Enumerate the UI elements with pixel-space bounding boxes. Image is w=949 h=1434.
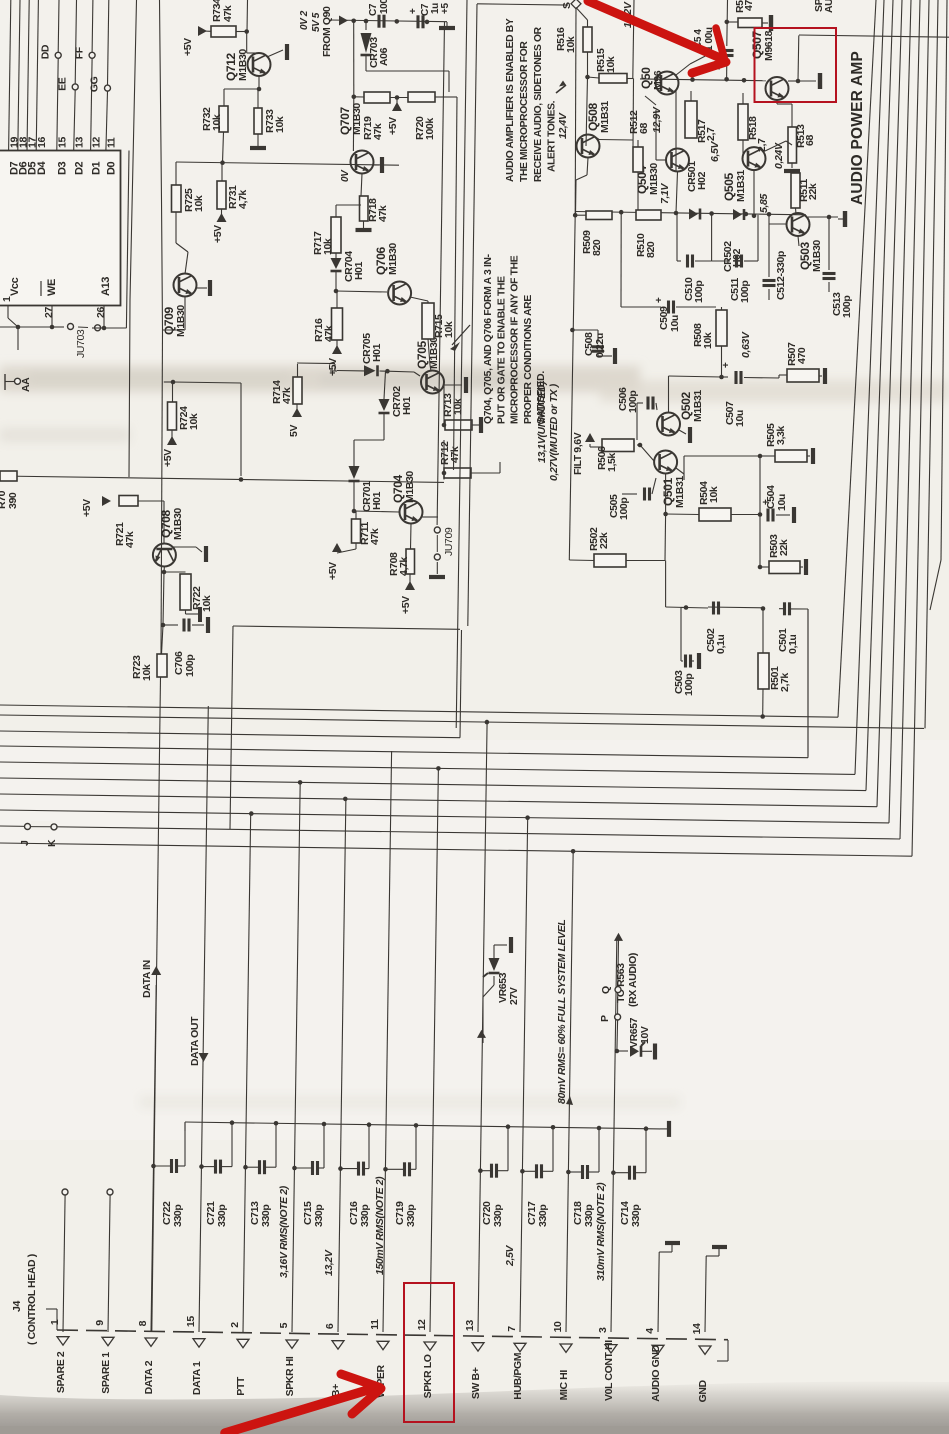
svg-text:330p: 330p (630, 1205, 642, 1227)
svg-text:+: + (721, 362, 732, 368)
wire Q505 collector (752, 170, 757, 218)
wire SPARE 1 line (107, 1189, 113, 1332)
svg-text:V0L CONT HI: V0L CONT HI (603, 1340, 615, 1401)
wire Q501 base (637, 443, 654, 461)
wire GND line (705, 1256, 706, 1332)
connector pin 10 MIC HI (552, 1321, 572, 1400)
label AUDIO POWER AMP (849, 51, 866, 205)
wire Q503 collector (798, 236, 799, 246)
wire bus V2 mid (161, 330, 163, 654)
wire R712 right (471, 462, 500, 473)
svg-text:13,2V: 13,2V (323, 1249, 335, 1276)
resistor R720 (408, 92, 449, 140)
label D4 pin 16 (36, 137, 48, 175)
wire R512 bottom (636, 172, 641, 215)
label 310mV RMS (595, 1182, 607, 1281)
svg-text:47k: 47k (222, 5, 234, 22)
wire CR703 to R720 (366, 71, 449, 92)
resistor R719 (362, 92, 390, 140)
transistor Q709 (162, 274, 196, 338)
wire R715 to Q705 (428, 339, 431, 371)
wire Q508 collector (576, 158, 589, 216)
connector pin 9 SPARE 1 (94, 1320, 114, 1394)
resistor R511 (791, 173, 819, 208)
ground (R733) (250, 134, 266, 148)
resistor R516 (555, 27, 592, 53)
note arrow (450, 325, 470, 351)
ground (C508) (598, 348, 615, 364)
wire R515 right (627, 0, 634, 147)
label A13 pin 26 (95, 277, 112, 318)
svg-text:100p: 100p (683, 674, 695, 696)
red box SPKR LO (404, 1283, 454, 1422)
svg-text:Q505: Q505 (722, 173, 736, 201)
svg-text:12: 12 (416, 1319, 428, 1330)
label 0,63V italic (740, 331, 752, 358)
ground (VR657) (653, 1044, 657, 1060)
red box Q507 (755, 28, 837, 102)
svg-text:FF: FF (73, 46, 85, 59)
wire Q708 collector (162, 567, 186, 575)
svg-text:D3: D3 (57, 161, 69, 175)
svg-text:80mV RMS= 60% FULL SYSTEM LEVE: 80mV RMS= 60% FULL SYSTEM LEVEL (556, 920, 568, 1104)
resistor R718 (360, 196, 390, 222)
svg-text:10k: 10k (605, 56, 617, 73)
transistor Q508 (577, 101, 612, 158)
wire CR705 row (337, 369, 420, 376)
label +5V (R724) (162, 430, 177, 467)
svg-text:47k: 47k (124, 531, 136, 548)
transistor Q502 (657, 390, 704, 436)
transistor Q506 (639, 67, 678, 95)
svg-text:2,5V: 2,5V (504, 1245, 516, 1267)
svg-text:6,5V: 6,5V (709, 141, 721, 162)
wire Q507 collector (776, 100, 778, 104)
svg-text:M1B31: M1B31 (692, 390, 704, 422)
svg-text:Q507: Q507 (750, 31, 764, 59)
label DATA OUT (189, 1016, 208, 1066)
wire Q505 emitter (765, 141, 792, 151)
ground (top wire) (439, 3, 455, 28)
wire IC right vertical (126, 151, 129, 329)
capacitor C719 (383, 1126, 416, 1176)
label C716 (348, 1201, 371, 1227)
svg-text:DATA 2: DATA 2 (143, 1360, 155, 1394)
node Q (600, 986, 621, 994)
note audio amplifier enabled (505, 18, 557, 182)
svg-text:+5V: +5V (327, 562, 339, 580)
label 12,9V italic (651, 106, 663, 133)
svg-text:16: 16 (36, 137, 48, 148)
wire vertical bus V2 (DATA IN line) (160, 0, 163, 330)
label Vcc pin 1 (1, 277, 21, 302)
capacitor C714 (611, 1130, 646, 1180)
diode CR501 (686, 161, 708, 220)
svg-text:Q709: Q709 (162, 307, 176, 335)
svg-text:H01: H01 (401, 396, 413, 415)
svg-text:14: 14 (691, 1323, 703, 1334)
svg-text:2,7k: 2,7k (779, 673, 791, 692)
svg-text:Q707: Q707 (338, 107, 352, 135)
svg-text:Q503: Q503 (798, 242, 812, 270)
svg-text:+5V: +5V (162, 449, 174, 467)
svg-text:J: J (19, 840, 31, 846)
node DD (39, 44, 61, 59)
label D0 pin 11 (106, 137, 118, 175)
transistor Q501 (654, 451, 686, 509)
svg-text:390: 390 (7, 492, 19, 509)
wire CR702 to CR701 (354, 413, 384, 466)
svg-text:AUDIO GND: AUDIO GND (650, 1344, 662, 1401)
wire long rail y478 (0, 476, 444, 482)
svg-text:+5V: +5V (212, 225, 224, 243)
connector pin 7 HUB/PGM (506, 1326, 526, 1400)
node S (561, 0, 581, 9)
connector pin 4 AUDIO GND (644, 1328, 664, 1402)
wire Q709 collector (163, 297, 186, 331)
wire R734 right (236, 0, 259, 53)
connector pin 8 DATA 2 (137, 1320, 157, 1394)
svg-text:+5V: +5V (81, 499, 93, 517)
wire vertical x456 (449, 97, 457, 470)
wire Q712 emitter (267, 50, 283, 57)
resistor R731 (217, 163, 249, 209)
diode CR701 (349, 466, 384, 512)
svg-text:47: 47 (743, 0, 755, 11)
wire HUB/PGM line (520, 815, 530, 1332)
label 13,2V italic (622, 1, 634, 28)
wire A13 pin (92, 306, 127, 331)
svg-text:+5V: +5V (327, 358, 339, 376)
label C719 (394, 1201, 417, 1227)
svg-text:10u: 10u (776, 494, 788, 511)
ground (R5) (762, 15, 771, 31)
svg-text:10k: 10k (443, 321, 455, 338)
ground (R513) (784, 163, 800, 171)
wire Q505 base (742, 140, 744, 159)
wire common bus y1123 (185, 1120, 660, 1131)
label 13,1V unmuted italic (536, 381, 548, 463)
node AA (5, 374, 32, 392)
svg-text:330p: 330p (260, 1205, 272, 1227)
label C715 (302, 1201, 325, 1227)
svg-text:+: + (654, 297, 665, 303)
ground (common bus) (660, 1121, 669, 1137)
wire Q704 collector (410, 524, 413, 550)
svg-text:AA: AA (20, 377, 32, 392)
connector pin 2 PTT (229, 1322, 249, 1396)
svg-text:1: 1 (1, 296, 13, 302)
connector J4 left bracket (46, 1309, 57, 1330)
wire F2 riser (925, 0, 938, 728)
wire Q708 emitter (172, 547, 202, 552)
capacitor C713 (243, 1124, 276, 1174)
note arrow 2 (556, 81, 566, 94)
resistor R733 (254, 89, 286, 134)
svg-text:A06: A06 (378, 47, 390, 66)
ground (C503) (697, 653, 701, 669)
wire R516 down (585, 52, 590, 146)
svg-text:4,7k: 4,7k (398, 557, 410, 576)
wire R509 left (575, 214, 586, 216)
label D3 pin 15 (57, 137, 69, 175)
svg-text:4: 4 (644, 1328, 656, 1334)
resistor R725 (172, 162, 206, 212)
wire vertical bus V1 (129, 0, 137, 477)
ground (Q503) (838, 211, 845, 227)
wire R721 right (138, 501, 164, 544)
wire vertical A (456, 0, 467, 728)
resistor R723 (131, 654, 167, 681)
wire Q506 emitter (676, 52, 713, 75)
resistor R503 (760, 534, 800, 574)
ground (Q502) (688, 427, 692, 443)
resistor R708 (388, 549, 414, 576)
label C721 (205, 1201, 228, 1227)
svg-text:0,63V: 0,63V (740, 331, 752, 358)
svg-text:68: 68 (804, 135, 816, 146)
ground (R722) (186, 607, 201, 622)
label D6 pin 18 (18, 137, 30, 175)
note OR-gate (483, 253, 547, 424)
label FILT 9,6V (572, 432, 595, 475)
svg-text:100p: 100p (693, 281, 705, 303)
ground (Q712) (285, 44, 289, 60)
wire data line D5 (27, 0, 29, 151)
wire WE pin (18, 306, 54, 330)
svg-text:+5V: +5V (182, 38, 194, 56)
svg-text:Q708: Q708 (159, 510, 173, 538)
red arrow (bottom) (225, 1374, 381, 1433)
wire Q706 emitter to R715 (410, 297, 428, 303)
wire bus F2 (0, 715, 924, 728)
svg-text:M1B30: M1B30 (351, 103, 363, 135)
svg-text:PUT OR GATE TO ENABLE THE: PUT OR GATE TO ENABLE THE (496, 276, 507, 424)
wire data line D0 (106, 0, 109, 151)
wire data line D3 (57, 0, 59, 151)
svg-text:D1: D1 (90, 161, 102, 175)
svg-text:10k: 10k (702, 332, 714, 349)
wire MIC HI line (566, 849, 575, 1332)
resistor R712 (439, 441, 471, 478)
wire R504 right (731, 512, 762, 517)
ground (R718) (356, 221, 372, 230)
wire R725 to Q709 (176, 212, 188, 274)
svg-text:FILT 9,6V: FILT 9,6V (572, 432, 584, 475)
svg-text:7,1V: 7,1V (659, 183, 671, 204)
svg-text:100p: 100p (618, 498, 630, 520)
svg-text:0V 2: 0V 2 (299, 10, 310, 30)
wire left riser x569 (569, 215, 575, 560)
connector pin 3 V0L CONT HI (597, 1327, 617, 1401)
svg-text:AUDIO POWER AMP: AUDIO POWER AMP (849, 51, 866, 205)
ground (R507) (819, 368, 825, 384)
svg-text:330p: 330p (172, 1205, 184, 1227)
resistor R512 (628, 110, 650, 172)
capacitor C504 (761, 485, 790, 522)
resistor R510 (635, 210, 661, 258)
wire V0L line upper (617, 940, 620, 985)
svg-text:M1B30: M1B30 (237, 49, 249, 81)
wire S down (573, 8, 578, 218)
wire Q707 collector (361, 174, 362, 197)
connector pin 1 SPARE 2 (49, 1319, 69, 1393)
svg-text:10k: 10k (201, 595, 213, 612)
capacitor C507 (721, 362, 779, 427)
wire Q712 collector (224, 76, 261, 106)
svg-text:2,7: 2,7 (705, 127, 717, 141)
svg-text:330p: 330p (583, 1205, 595, 1227)
capacitor C511 (712, 215, 758, 268)
capacitor C716 (338, 1126, 369, 1176)
label 13,2V RMS (323, 1249, 335, 1276)
capacitor C506 (637, 397, 657, 441)
svg-text:M9618: M9618 (763, 30, 775, 61)
wire R724 node (164, 380, 244, 482)
svg-text:SPKR HI: SPKR HI (284, 1356, 296, 1396)
resistor R517 (685, 91, 717, 143)
label FROM Q903 (321, 6, 333, 57)
wire VR653 branch (477, 976, 494, 1043)
capacitor C512 (763, 214, 788, 300)
diode CR704 (331, 251, 366, 294)
wire box top (468, 4, 568, 626)
zener VR653 (483, 945, 520, 1005)
svg-text:47k: 47k (377, 205, 389, 222)
wire bus F6 (0, 778, 866, 791)
svg-text:6: 6 (324, 1323, 336, 1329)
wire P-Q gap (617, 993, 619, 1014)
node EE (56, 77, 78, 91)
resistor R502 (588, 527, 626, 567)
node GG (89, 76, 111, 92)
svg-text:26: 26 (95, 307, 107, 318)
svg-text:FROM Q90: FROM Q90 (321, 6, 333, 57)
svg-text:C512-330p: C512-330p (775, 251, 787, 300)
label D2 pin 13 (73, 137, 85, 175)
label C714 (619, 1201, 642, 1227)
svg-text:13,1V(UNMUTED): 13,1V(UNMUTED) (536, 381, 548, 463)
label C501 (777, 628, 799, 654)
svg-text:Q501: Q501 (661, 478, 675, 506)
zener VR657 (617, 1017, 652, 1056)
resistor R716 (313, 291, 342, 342)
svg-text:M1B30: M1B30 (811, 240, 823, 272)
label +5V (R719) (387, 98, 402, 136)
resistor R504 (698, 481, 731, 521)
wire AUDIO GND line (658, 1252, 659, 1332)
resistor R700 390 (0, 471, 19, 509)
ground (VR653) (509, 937, 513, 953)
wire Q502 collector (668, 376, 670, 413)
wire R511 to Q503 (795, 208, 798, 214)
diode CR702 (379, 386, 414, 417)
capacitor C706 (163, 619, 204, 678)
label 7,1V italic (659, 183, 671, 204)
svg-text:470: 470 (796, 347, 808, 364)
svg-text:10k: 10k (193, 195, 205, 212)
svg-text:1: 1 (49, 1319, 61, 1325)
svg-text:13: 13 (73, 137, 85, 148)
label +5V (R721) (81, 496, 111, 517)
svg-text:Q508: Q508 (586, 103, 600, 131)
capacitor C724 (408, 3, 441, 28)
resistor R722 (180, 574, 213, 612)
wire R712 left (442, 440, 447, 480)
svg-text:A13: A13 (100, 277, 112, 296)
label 5,85 italic (758, 194, 770, 213)
svg-text:SPARE 1: SPARE 1 (100, 1352, 112, 1394)
wire CR701 to Q704 (352, 481, 399, 513)
wire R713 (442, 385, 447, 427)
transistor Q504 (635, 149, 689, 196)
capacitor C509 (654, 297, 716, 332)
svg-text:5: 5 (278, 1322, 290, 1328)
wire C509 branch (621, 212, 661, 307)
svg-text:J4: J4 (11, 1301, 23, 1312)
diode CR705 (361, 333, 383, 377)
capacitor C508 (572, 330, 606, 358)
label +5V (R734) (182, 26, 211, 56)
svg-text:4,7k: 4,7k (237, 190, 249, 209)
svg-text:10k: 10k (322, 238, 334, 255)
svg-text:D0: D0 (106, 161, 118, 175)
svg-text:DATA 1: DATA 1 (191, 1361, 203, 1395)
ground (C504) (792, 507, 796, 523)
svg-text:330p: 330p (492, 1205, 504, 1227)
svg-text:JU703: JU703 (75, 329, 87, 358)
jumper JU703 (52, 324, 101, 359)
svg-text:5,85: 5,85 (758, 194, 770, 213)
label 80mV RMS (556, 920, 573, 1105)
wire to Q707 base (352, 97, 354, 151)
ground (AUDIO GND) (659, 1243, 680, 1252)
label C502 (705, 628, 727, 654)
connector J4 right bracket (717, 1340, 728, 1361)
transistor Q505 (722, 147, 765, 202)
wire data line D7 (9, 0, 11, 151)
wire DATA 2 / DATA IN (151, 985, 156, 1332)
capacitor C502 (714, 602, 719, 615)
svg-text:( CONTROL HEAD ): ( CONTROL HEAD ) (26, 1254, 38, 1345)
svg-text:0,1u: 0,1u (715, 635, 727, 654)
svg-text:310mV RMS(NOTE 2): 310mV RMS(NOTE 2) (595, 1182, 607, 1281)
svg-text:22k: 22k (598, 532, 610, 549)
diode CR703 (361, 21, 391, 71)
wire V0L CONT HI line (611, 940, 617, 1332)
svg-text:DATA IN: DATA IN (141, 960, 153, 998)
svg-text:SW B+: SW B+ (470, 1367, 482, 1399)
svg-text:0,27V(MUTED or TX ): 0,27V(MUTED or TX ) (548, 383, 560, 481)
svg-text:10k: 10k (188, 413, 200, 430)
svg-text:Q705: Q705 (415, 341, 429, 369)
wire S to R516 (576, 8, 588, 28)
svg-text:DATA OUT: DATA OUT (189, 1016, 201, 1066)
label 5V (R714) (288, 404, 302, 437)
svg-text:330p: 330p (359, 1205, 371, 1227)
ground (Q507) (798, 73, 820, 89)
svg-text:MIC HI: MIC HI (558, 1370, 570, 1401)
wire data line D4 (36, 0, 38, 151)
wire R502 right (626, 514, 666, 561)
capacitor C718 (566, 1129, 599, 1179)
label 0V italic (340, 169, 351, 182)
wire F10 riser (912, 0, 929, 856)
wire Q501 emitter (676, 468, 684, 480)
svg-text:TO R563: TO R563 (615, 963, 627, 1003)
resistor R732 (201, 106, 228, 132)
svg-text:H01: H01 (371, 343, 383, 362)
